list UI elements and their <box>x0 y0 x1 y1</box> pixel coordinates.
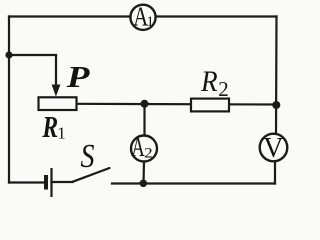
rheostat R1 box <box>39 97 77 110</box>
svg-text:1: 1 <box>146 14 154 30</box>
svg-text:2: 2 <box>144 145 153 161</box>
node junction right <box>272 101 280 109</box>
wire top <box>9 15 277 17</box>
ammeter A1 <box>130 5 155 30</box>
voltmeter V <box>260 134 288 162</box>
svg-text:R: R <box>42 109 59 144</box>
node junction middle <box>141 100 149 108</box>
svg-text:1: 1 <box>57 123 66 142</box>
wire A2 bottom <box>142 162 145 184</box>
wire right lower <box>274 161 276 184</box>
svg-text:S: S <box>81 138 95 175</box>
svg-text:2: 2 <box>218 77 229 101</box>
resistor R2 box <box>191 99 229 112</box>
switch S blade <box>73 168 110 182</box>
wire wiper horizontal <box>9 54 56 56</box>
node junction bottom <box>140 180 148 188</box>
wire A2 top <box>143 104 145 136</box>
svg-text:A: A <box>131 132 145 162</box>
wire bottom right <box>112 182 275 184</box>
svg-text:R: R <box>200 65 218 98</box>
ammeter A2 <box>131 136 157 162</box>
svg-text:V: V <box>263 133 283 164</box>
wire wiper vertical <box>55 55 57 87</box>
node junction left <box>5 51 12 58</box>
battery long thin plate <box>50 168 52 197</box>
wire right upper <box>275 17 278 135</box>
wire left <box>8 17 10 183</box>
battery short thick plate <box>44 175 48 190</box>
svg-text:P: P <box>66 59 91 94</box>
wire bottom mid (battery to switch pivot) <box>52 181 73 183</box>
rheostat wiper arrowhead <box>52 85 61 97</box>
wire bottom far-left <box>9 181 45 183</box>
wire middle row <box>77 103 277 106</box>
